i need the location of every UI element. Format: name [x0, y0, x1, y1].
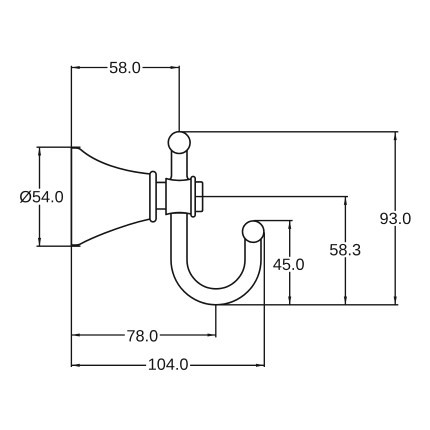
left collar ring [150, 171, 156, 221]
post (between ball and body) [170, 146, 189, 179]
label 58.0 [108, 60, 143, 75]
label O54.0 [20, 189, 64, 205]
collar neck (between wall flange collar and body) [153, 182, 167, 209]
right end cap [193, 182, 203, 212]
dim line D54 [39, 147, 41, 246]
dim line 104.0 [71, 364, 264, 366]
label 104.0 [146, 357, 190, 372]
wall-face extension line [70, 66, 72, 367]
extension line ball axis [178, 66, 180, 132]
extension line hook ball top [254, 220, 293, 222]
dim line 58.0 [71, 67, 178, 69]
hook J-tube [171, 213, 261, 305]
flange top stub [37, 146, 81, 148]
hook end ball [243, 221, 264, 242]
top finial ball [168, 132, 190, 154]
dim line 58.3 [344, 197, 346, 305]
extension line hook bottom [217, 304, 398, 306]
label 58.3 [328, 242, 363, 257]
dim line 93.0 [394, 132, 396, 305]
dim line 45.0 [289, 221, 291, 305]
flange bottom stub [37, 245, 81, 247]
wall flange (trumpet bell) [71, 148, 150, 245]
body (central housing) [166, 179, 193, 215]
label 45.0 [271, 257, 306, 272]
extension line center axis 58.3 [195, 196, 348, 198]
right collar ring [191, 176, 195, 217]
extension line hook U center [215, 305, 217, 338]
extension line hook right [263, 233, 265, 368]
label 78.0 [125, 328, 160, 343]
arrowheads [38, 66, 397, 367]
dim line 78.0 [71, 334, 215, 336]
dimensions [37, 66, 399, 367]
label 93.0 [378, 211, 413, 226]
extension line ball top / 93 top [181, 131, 399, 133]
